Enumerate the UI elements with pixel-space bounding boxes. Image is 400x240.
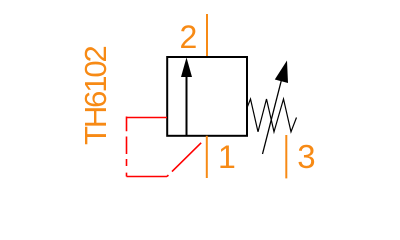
svg-text:1: 1 — [218, 139, 236, 175]
flow arrow shaft — [186, 75, 188, 136]
flow arrow head — [181, 58, 192, 78]
adjustment arrow shaft — [263, 72, 284, 154]
wire port 1 — [206, 136, 208, 178]
svg-text:3: 3 — [297, 138, 315, 175]
svg-text:2: 2 — [180, 19, 198, 55]
valve body U1 — [167, 57, 247, 136]
wire port 2 — [206, 14, 208, 57]
spring — [247, 99, 297, 132]
pilot line diagonal segment — [167, 137, 207, 177]
wire port 3 — [285, 135, 287, 178]
pilot line left segment — [126, 117, 128, 177]
adjustment arrow head — [275, 61, 288, 84]
svg-text:TH6102: TH6102 — [78, 46, 113, 145]
pilot line bottom segment — [127, 176, 168, 178]
pilot line top segment — [127, 117, 168, 119]
